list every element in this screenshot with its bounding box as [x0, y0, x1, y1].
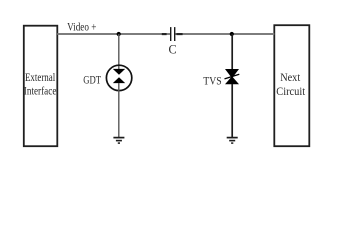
svg-text:GDT: GDT	[83, 74, 101, 87]
svg-text:Interface: Interface	[24, 85, 57, 97]
svg-text:C: C	[169, 42, 177, 56]
svg-text:Video +: Video +	[67, 21, 96, 33]
svg-text:External: External	[25, 72, 55, 84]
svg-text:Next: Next	[280, 72, 301, 84]
svg-text:TVS: TVS	[203, 74, 221, 87]
svg-text:Circuit: Circuit	[276, 86, 306, 98]
